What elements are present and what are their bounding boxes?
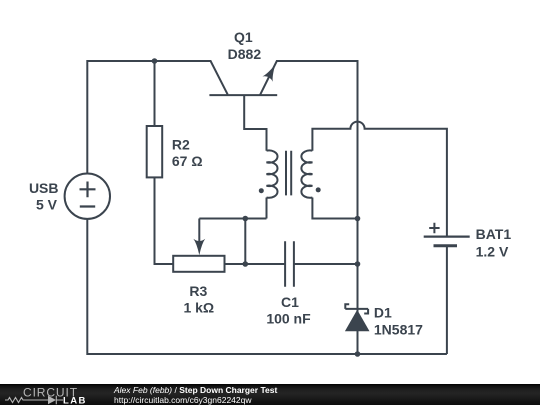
svg-text:R3: R3 bbox=[189, 283, 207, 299]
svg-text:1 kΩ: 1 kΩ bbox=[183, 300, 214, 316]
svg-text:BAT1: BAT1 bbox=[476, 226, 512, 242]
svg-text:Q1: Q1 bbox=[234, 29, 253, 45]
svg-text:D1: D1 bbox=[374, 305, 392, 321]
svg-text:1.2 V: 1.2 V bbox=[476, 244, 509, 260]
svg-text:67 Ω: 67 Ω bbox=[172, 153, 203, 169]
svg-text:D882: D882 bbox=[228, 46, 262, 62]
svg-text:1N5817: 1N5817 bbox=[374, 322, 423, 338]
svg-text:5 V: 5 V bbox=[36, 196, 58, 212]
svg-text:C1: C1 bbox=[281, 294, 299, 310]
svg-text:LAB: LAB bbox=[63, 396, 87, 405]
svg-text:R2: R2 bbox=[172, 136, 190, 152]
svg-text:100 nF: 100 nF bbox=[266, 311, 311, 327]
svg-text:USB: USB bbox=[29, 180, 59, 196]
